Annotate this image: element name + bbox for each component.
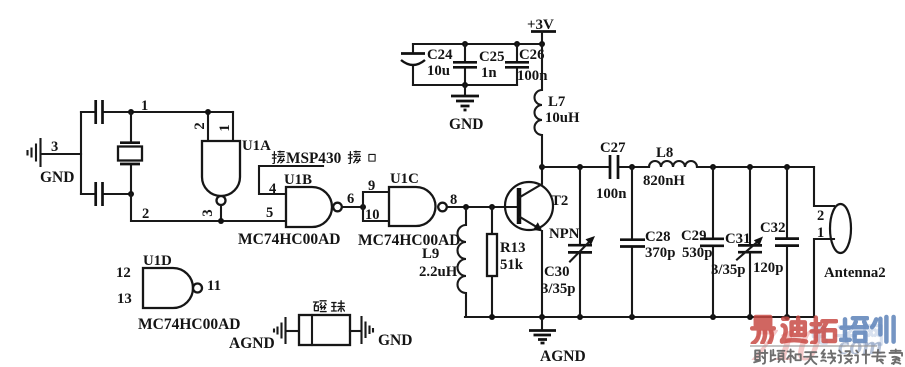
svg-text:MC74HC00AD: MC74HC00AD [238,231,340,248]
svg-text:2: 2 [817,208,824,224]
label MSP430 interface (CJK jie MSP430 jie kou) [272,150,375,167]
op-amp U1D (NAND, unused) [116,253,240,333]
svg-text:1: 1 [817,225,824,241]
capacitor C26 [505,44,547,85]
crystal Y1 [118,112,142,194]
svg-text:100n: 100n [596,186,626,202]
inductor L7 [535,44,581,167]
svg-text:4: 4 [269,181,276,197]
svg-text:1n: 1n [481,65,497,81]
svg-text:C24: C24 [427,47,453,63]
watermark tagline (gray CJK row) [754,349,902,364]
svg-text:2: 2 [192,122,208,129]
watermark pei xun (blue) [841,317,894,342]
svg-text:GND: GND [40,169,74,186]
capacitor C31 (trimmer 3/35p) [711,167,763,317]
svg-text:5: 5 [266,205,273,221]
svg-text:11: 11 [207,278,221,294]
node 1 wire [128,98,233,115]
watermark ghost dianziwang [813,324,881,346]
wire bead left [286,330,299,332]
svg-text:370p: 370p [645,245,675,261]
ground GND (ferrite bead right) [362,317,413,349]
svg-text:NPN: NPN [549,226,580,242]
wire decoupling bank bottom [413,84,517,86]
transistor T2 (NPN) [505,167,580,317]
svg-text:C25: C25 [479,49,504,65]
svg-text:MC74HC00AD: MC74HC00AD [138,316,240,333]
svg-text:C28: C28 [645,229,670,245]
ferrite bead (CJK ci zhu label) [299,301,350,345]
capacitor (crystal load, bottom) [81,182,131,206]
svg-text:9: 9 [368,178,375,194]
op-amp U1A (NAND gate, points down) [192,109,271,224]
svg-text:GND: GND [449,116,483,133]
inductor L8 [643,145,697,189]
capacitor C24 (polarized) [401,44,453,85]
svg-text:10u: 10u [427,63,450,79]
svg-text:L8: L8 [656,145,673,161]
svg-text:120p: 120p [753,260,783,276]
watermark yi di tuo (red) [752,317,836,343]
capacitor C30 (trimmer 3/35p) [541,167,595,317]
wire net 8 to transistor base [447,192,517,210]
capacitor (crystal load, top) [81,100,131,124]
capacitor C28 [620,167,675,317]
svg-text:T2: T2 [551,193,568,209]
svg-text:MSP430: MSP430 [286,150,342,167]
capacitor C29 [681,167,724,317]
antenna Antenna2 [814,167,886,317]
svg-text:MC74HC00AD: MC74HC00AD [358,232,460,249]
capacitor C27 (series) [596,140,626,202]
power +3V [527,17,556,44]
svg-text:3/35p: 3/35p [541,281,576,297]
svg-text:C31: C31 [725,231,750,247]
ground GND (decoupling) [449,85,483,133]
svg-text:AGND: AGND [229,335,275,352]
svg-text:6: 6 [347,191,354,207]
wire left rail [80,112,82,194]
svg-text:1: 1 [141,98,148,114]
svg-text:C26: C26 [519,47,544,63]
svg-text:10uH: 10uH [545,110,580,126]
wire node2 down and across [131,194,286,222]
capacitor C25 [453,44,504,85]
svg-text:530p: 530p [682,245,712,261]
wire RF rail (collector to antenna) [542,166,814,168]
svg-text:8: 8 [450,192,457,208]
wire GND to left rail [41,153,81,155]
svg-text:51k: 51k [500,257,524,273]
svg-text:2.2uH: 2.2uH [419,264,458,280]
svg-text:3: 3 [200,209,216,216]
svg-text:10: 10 [365,207,380,223]
svg-text:3/35p: 3/35p [711,262,746,278]
svg-text:C32: C32 [760,220,785,236]
svg-text:13: 13 [117,291,132,307]
ground GND (left, pin 3 net) [28,139,41,166]
svg-text:U1A: U1A [242,138,271,154]
ground AGND (main) [529,317,586,365]
svg-text:3: 3 [51,139,58,155]
wire analog ground bus (bottom) [465,316,814,318]
inductor L9 [419,207,466,317]
svg-text:C29: C29 [681,228,706,244]
op-amp U1B (NAND) [238,172,342,248]
svg-text:C30: C30 [544,264,569,280]
op-amp U1C (NAND) [358,171,460,249]
ground AGND (ferrite bead left) [229,318,286,352]
wire decoupling bank top [413,43,542,45]
node at crystal bottom [128,191,134,197]
svg-text:AGND: AGND [540,348,586,365]
wire U1C input bracket [363,192,389,221]
svg-text:U1B: U1B [284,172,312,188]
svg-text:L9: L9 [422,246,439,262]
svg-text:Antenna2: Antenna2 [824,265,886,281]
wire pin4 connector bracket [259,166,323,194]
svg-text:C27: C27 [600,140,626,156]
node collector [539,164,545,170]
svg-text:GND: GND [378,332,412,349]
svg-text:1: 1 [217,124,233,131]
wire U1B out (net 6) [342,191,366,210]
watermark underline [750,345,877,347]
wire bead right [350,330,361,332]
svg-text:12: 12 [116,265,131,281]
svg-text:820nH: 820nH [643,173,685,189]
svg-text:R13: R13 [500,240,525,256]
svg-text:U1D: U1D [143,253,172,269]
svg-text:U1C: U1C [390,171,419,187]
svg-text:2: 2 [142,206,149,222]
resistor R13 [487,207,525,317]
svg-text:L7: L7 [548,94,566,110]
capacitor C32 [753,167,799,317]
